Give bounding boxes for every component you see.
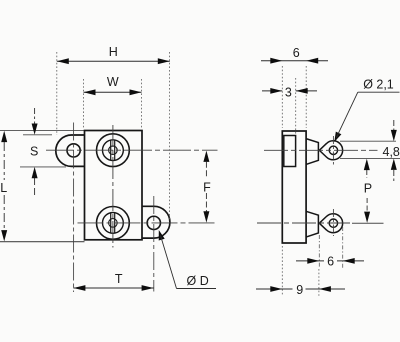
node: side view ceramic insert — [284, 136, 296, 167]
dimension L arrows — [1, 131, 7, 142]
wire: side view bottom centerline — [257, 222, 350, 224]
dimension 6 top extension lines — [281, 66, 283, 128]
node: bottom screw head — [103, 213, 124, 234]
node: top screw slot — [110, 140, 112, 160]
svg-text:F: F — [203, 181, 211, 195]
node: left mounting tab — [56, 135, 85, 166]
svg-text:H: H — [109, 45, 118, 59]
svg-text:9: 9 — [296, 283, 303, 297]
wire: body top extension line for L — [0, 129, 85, 131]
dimension 3 line and arrows — [262, 90, 282, 92]
wire: bottom eyelet vertical centerline — [332, 209, 334, 236]
svg-text:L: L — [0, 181, 7, 195]
svg-text:T: T — [115, 272, 123, 286]
node: bottom eyelet — [319, 214, 342, 233]
svg-text:6: 6 — [327, 255, 334, 269]
dimension F arrows — [203, 151, 209, 162]
node: top screw head — [103, 140, 124, 161]
node: top eyelet — [319, 141, 342, 160]
dimension W line — [84, 91, 142, 93]
node: front view main body — [85, 131, 143, 240]
svg-text:W: W — [107, 75, 119, 89]
node: right mounting tab — [142, 206, 170, 238]
dimension H line — [57, 60, 170, 62]
label 9 — [293, 282, 306, 297]
node: bottom screw outer washer — [97, 207, 130, 240]
dimension S arrows — [34, 108, 36, 125]
svg-text:3: 3 — [285, 86, 292, 100]
dimension S extension lines — [23, 134, 52, 136]
wire: left hole vertical centerline — [73, 123, 75, 293]
dimension P arrows — [364, 159, 370, 170]
svg-text:6: 6 — [293, 46, 300, 60]
dimension 4,8 extension lines — [340, 140, 396, 142]
node: bottom screw slot — [110, 213, 112, 233]
wire: top horizontal centerline — [46, 149, 218, 151]
svg-text:S: S — [30, 145, 38, 159]
wire: bottom horizontal centerline — [78, 222, 217, 224]
node: bottom eyelet hole — [329, 219, 337, 227]
node: side view body — [282, 131, 306, 243]
dimension 9 line and arrows — [256, 288, 345, 290]
leader for diameter D — [159, 230, 165, 241]
node: top eyelet hole — [329, 146, 337, 154]
svg-text:4,8: 4,8 — [383, 145, 400, 159]
wire: body bottom extension line for L — [0, 241, 85, 243]
dimension 4,8 arrows — [393, 120, 395, 131]
wire: right hole vertical centerline — [153, 196, 155, 292]
dimension T line — [73, 287, 153, 289]
svg-text:P: P — [364, 181, 372, 195]
node: bottom boss — [306, 211, 318, 237]
dimension 6 top line and arrows — [261, 60, 328, 62]
dimension 3 extension line — [295, 78, 297, 134]
dimension 6 bottom extension lines — [318, 235, 320, 268]
svg-text:Ø D: Ø D — [187, 274, 209, 288]
node: top boss — [306, 139, 318, 165]
dimension H extension lines — [56, 52, 58, 135]
dimension 6 bottom line and arrows — [296, 260, 364, 262]
node: top screw outer washer — [97, 134, 130, 167]
leader for diameter 2,1 — [334, 132, 341, 142]
wire: side view top centerline — [264, 149, 378, 151]
dimension P bottom extension line — [352, 222, 384, 224]
wire: top eyelet vertical centerline — [332, 136, 334, 167]
dimension W extension lines — [83, 79, 85, 129]
dimension 9 extension lines — [281, 246, 283, 296]
node: left tab hole — [67, 144, 80, 157]
label 6 bottom — [324, 254, 337, 269]
svg-text:Ø 2,1: Ø 2,1 — [363, 78, 394, 92]
wire: screws vertical centerline — [112, 125, 114, 248]
node: right tab hole — [147, 216, 160, 229]
